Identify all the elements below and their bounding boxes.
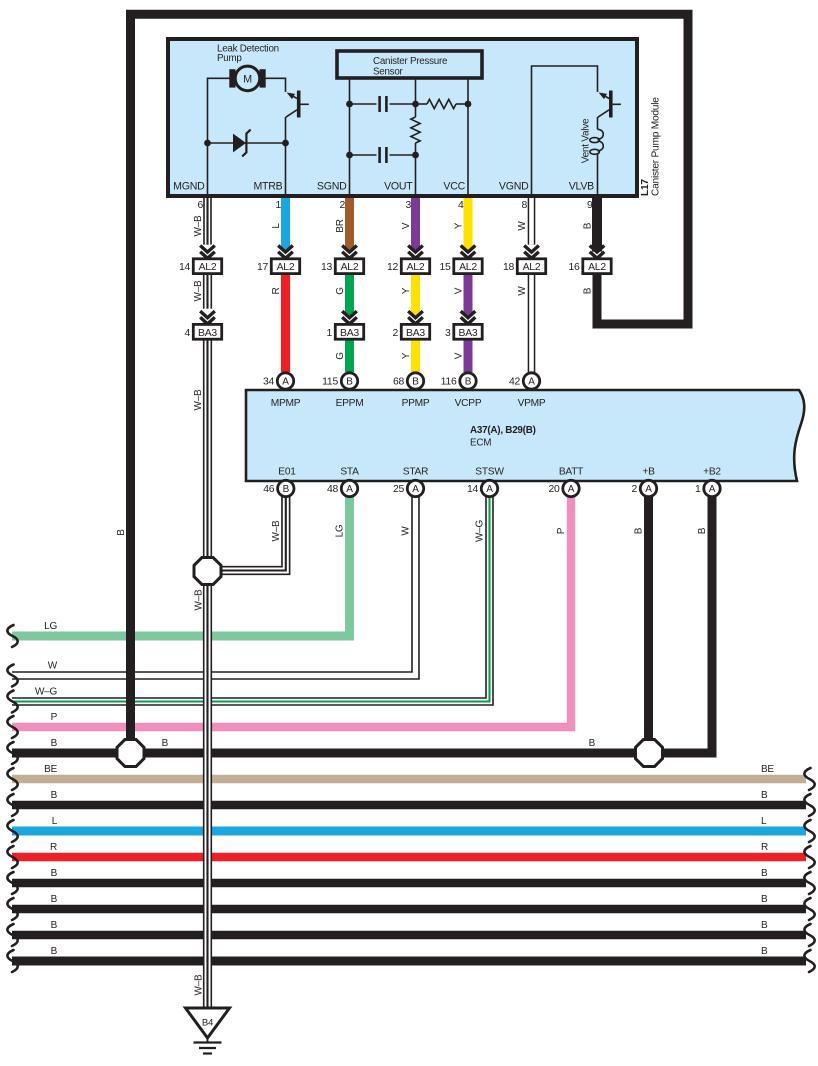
svg-text:13: 13 (321, 262, 333, 273)
svg-text:BE: BE (761, 764, 774, 775)
svg-text:AL2: AL2 (277, 262, 295, 273)
svg-text:1: 1 (275, 200, 281, 211)
svg-text:A: A (709, 484, 716, 495)
svg-text:G: G (335, 287, 346, 295)
svg-text:Canister Pump Module: Canister Pump Module (651, 97, 662, 196)
svg-text:A: A (645, 484, 652, 495)
svg-text:STAR: STAR (403, 466, 428, 477)
svg-text:B: B (583, 287, 594, 294)
svg-text:L: L (761, 816, 767, 827)
svg-text:16: 16 (568, 262, 580, 273)
svg-text:L17: L17 (640, 179, 651, 196)
svg-text:STA: STA (340, 466, 359, 477)
svg-text:2: 2 (339, 200, 345, 211)
svg-text:W–G: W–G (475, 520, 486, 543)
svg-text:B4: B4 (202, 1018, 214, 1029)
svg-text:W–B: W–B (271, 520, 282, 542)
svg-text:R: R (761, 842, 768, 853)
svg-text:6: 6 (197, 200, 203, 211)
svg-text:2: 2 (392, 328, 398, 339)
svg-text:+B: +B (642, 466, 655, 477)
svg-text:W–B: W–B (193, 215, 204, 237)
svg-text:4: 4 (458, 200, 464, 211)
svg-text:AL2: AL2 (523, 262, 541, 273)
svg-text:14: 14 (467, 484, 479, 495)
svg-text:B: B (51, 920, 58, 931)
svg-text:A: A (346, 484, 353, 495)
svg-text:3: 3 (445, 328, 451, 339)
svg-text:AL2: AL2 (459, 262, 477, 273)
svg-text:AL2: AL2 (407, 262, 425, 273)
svg-text:Pump: Pump (217, 53, 242, 64)
svg-text:B: B (761, 868, 768, 879)
svg-text:W–B: W–B (194, 589, 205, 611)
svg-text:B: B (283, 484, 290, 495)
svg-text:BE: BE (44, 764, 57, 775)
svg-text:VCPP: VCPP (455, 398, 482, 409)
svg-text:B: B (761, 946, 768, 957)
svg-text:ECM: ECM (470, 438, 491, 449)
svg-text:BATT: BATT (559, 466, 583, 477)
svg-text:B: B (583, 222, 594, 229)
svg-text:17: 17 (257, 262, 269, 273)
svg-text:MPMP: MPMP (271, 398, 301, 409)
svg-text:V: V (454, 352, 465, 359)
svg-text:B: B (761, 894, 768, 905)
svg-text:A: A (412, 484, 419, 495)
svg-text:W–G: W–G (35, 687, 58, 698)
svg-text:BA3: BA3 (198, 328, 217, 339)
svg-text:LG: LG (335, 524, 346, 537)
svg-text:VPMP: VPMP (518, 398, 546, 409)
svg-text:A: A (486, 484, 493, 495)
svg-text:LG: LG (44, 621, 57, 632)
svg-text:VCC: VCC (443, 180, 465, 192)
svg-text:Y: Y (401, 287, 412, 294)
svg-text:Vent Valve: Vent Valve (581, 118, 592, 163)
svg-text:A: A (568, 484, 575, 495)
svg-text:A: A (282, 377, 289, 388)
svg-text:G: G (335, 352, 346, 360)
svg-text:Y: Y (454, 222, 465, 229)
svg-text:15: 15 (439, 262, 451, 273)
svg-text:1: 1 (326, 328, 332, 339)
svg-text:42: 42 (509, 377, 521, 388)
svg-text:SGND: SGND (317, 180, 347, 192)
svg-text:BR: BR (335, 219, 346, 232)
svg-text:B: B (116, 529, 127, 536)
svg-text:AL2: AL2 (341, 262, 359, 273)
svg-text:VGND: VGND (499, 180, 529, 192)
svg-text:B: B (634, 527, 645, 534)
svg-text:MTRB: MTRB (253, 180, 282, 192)
svg-text:AL2: AL2 (588, 262, 606, 273)
svg-text:B: B (465, 377, 472, 388)
svg-text:VLVB: VLVB (569, 180, 594, 192)
svg-text:BA3: BA3 (406, 328, 425, 339)
svg-text:A37(A), B29(B): A37(A), B29(B) (470, 425, 536, 436)
svg-text:A: A (528, 377, 535, 388)
svg-text:V: V (401, 222, 412, 229)
svg-text:Y: Y (401, 352, 412, 359)
svg-text:W: W (48, 661, 58, 672)
svg-text:B: B (761, 920, 768, 931)
svg-text:B: B (51, 790, 58, 801)
svg-text:B: B (51, 738, 58, 749)
svg-text:68: 68 (393, 377, 405, 388)
svg-text:Canister Pressure: Canister Pressure (373, 56, 448, 67)
svg-text:Sensor: Sensor (373, 67, 404, 78)
svg-text:48: 48 (327, 484, 339, 495)
svg-text:P: P (556, 527, 567, 534)
svg-text:W: W (517, 286, 528, 296)
svg-text:M: M (243, 73, 252, 85)
svg-text:B: B (761, 790, 768, 801)
svg-text:B: B (697, 527, 708, 534)
svg-text:B: B (51, 946, 58, 957)
svg-text:B: B (346, 377, 353, 388)
svg-text:9: 9 (587, 200, 593, 211)
svg-text:116: 116 (441, 377, 457, 388)
svg-text:115: 115 (322, 377, 338, 388)
svg-text:VOUT: VOUT (384, 180, 413, 192)
svg-text:L: L (52, 816, 58, 827)
svg-text:L: L (271, 223, 282, 229)
svg-text:EPPM: EPPM (336, 398, 364, 409)
svg-text:R: R (271, 287, 282, 294)
svg-text:B: B (51, 868, 58, 879)
svg-text:14: 14 (179, 262, 191, 273)
svg-text:BA3: BA3 (340, 328, 359, 339)
svg-text:W–B: W–B (194, 974, 205, 996)
svg-text:W–B: W–B (193, 280, 204, 302)
svg-text:B: B (51, 894, 58, 905)
svg-text:W–B: W–B (193, 389, 204, 411)
svg-text:E01: E01 (278, 466, 296, 477)
svg-text:46: 46 (263, 484, 275, 495)
svg-text:B: B (589, 738, 596, 749)
svg-text:18: 18 (503, 262, 515, 273)
svg-text:W: W (517, 221, 528, 231)
svg-text:AL2: AL2 (199, 262, 217, 273)
svg-text:4: 4 (184, 328, 190, 339)
svg-text:P: P (51, 712, 58, 723)
svg-text:8: 8 (521, 200, 527, 211)
svg-text:1: 1 (695, 484, 701, 495)
svg-text:34: 34 (263, 377, 275, 388)
svg-text:2: 2 (631, 484, 637, 495)
svg-text:25: 25 (393, 484, 405, 495)
svg-text:W: W (401, 526, 412, 536)
svg-text:STSW: STSW (475, 466, 504, 477)
svg-text:3: 3 (405, 200, 411, 211)
svg-text:BA3: BA3 (459, 328, 478, 339)
svg-text:PPMP: PPMP (402, 398, 430, 409)
svg-text:B: B (412, 377, 419, 388)
svg-text:V: V (454, 287, 465, 294)
svg-text:B: B (162, 738, 169, 749)
svg-text:20: 20 (548, 484, 560, 495)
svg-text:+B2: +B2 (703, 466, 721, 477)
svg-text:12: 12 (387, 262, 399, 273)
svg-text:MGND: MGND (173, 180, 205, 192)
svg-text:R: R (50, 842, 57, 853)
